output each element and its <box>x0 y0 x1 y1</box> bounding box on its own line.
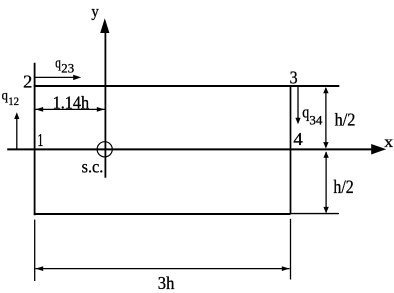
rectangle top edge (flange 2-3) <box>34 85 340 87</box>
svg-text:34: 34 <box>309 113 322 127</box>
svg-text:4: 4 <box>293 129 302 149</box>
label q12 <box>2 88 20 108</box>
rectangle right edge (web 3-4) <box>290 86 292 214</box>
svg-text:23: 23 <box>61 62 74 76</box>
rectangle left edge (web 1-2) <box>34 63 36 216</box>
svg-text:12: 12 <box>8 95 19 108</box>
x-axis <box>7 144 386 155</box>
dimension 1.14h <box>35 107 104 112</box>
dimension 3h <box>35 266 289 271</box>
extension line left (below rectangle) <box>34 220 36 281</box>
svg-text:s.c.: s.c. <box>82 156 104 176</box>
shear flow arrow q12 <box>14 112 19 150</box>
rectangle bottom edge <box>34 213 291 215</box>
label q34 <box>302 102 322 127</box>
dimension h/2 upper <box>323 87 328 148</box>
label q23 <box>55 56 74 76</box>
y-axis <box>100 18 109 178</box>
dimension h/2 lower <box>323 151 328 213</box>
extension line right (below rectangle) <box>290 219 292 280</box>
svg-text:1: 1 <box>37 130 43 150</box>
svg-text:q: q <box>55 56 61 72</box>
bottom edge extension line (to h/2 dimension) <box>291 213 340 215</box>
svg-text:3h: 3h <box>158 273 175 293</box>
svg-text:3: 3 <box>290 68 298 88</box>
shear flow arrow q34 <box>295 87 300 125</box>
svg-text:y: y <box>91 4 98 21</box>
svg-text:q: q <box>2 88 8 103</box>
svg-text:h/2: h/2 <box>333 178 353 198</box>
svg-text:h/2: h/2 <box>335 109 356 129</box>
shear center circle <box>97 142 112 157</box>
svg-text:1.14h: 1.14h <box>53 93 90 113</box>
svg-text:x: x <box>384 134 393 151</box>
svg-text:2: 2 <box>23 71 32 91</box>
shear flow arrow q23 <box>35 75 81 80</box>
svg-text:q: q <box>302 102 309 121</box>
